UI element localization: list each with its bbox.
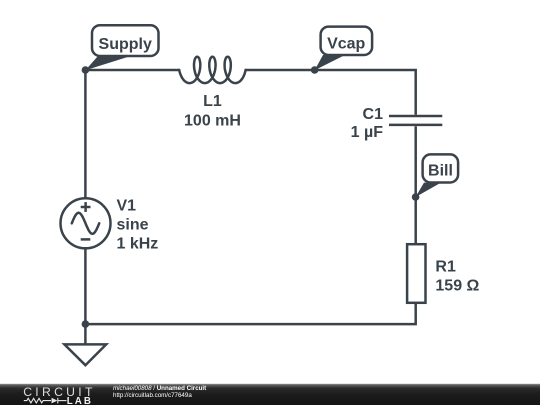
- voltage source V1: [61, 198, 159, 253]
- svg-text:sine: sine: [117, 217, 149, 234]
- svg-text:Vcap: Vcap: [327, 36, 365, 53]
- ground junction node dot: [82, 320, 90, 328]
- wire top-right (inductor to corner, down to capacitor): [246, 70, 416, 115]
- wire resistor bottom to corner and bottom wire to ground junction: [85, 303, 415, 324]
- footer bar: [0, 384, 540, 405]
- node label Vcap: [315, 27, 373, 71]
- wire capacitor to resistor (through Bill node): [414, 126, 417, 244]
- node label Bill: [416, 154, 459, 197]
- svg-text:C1: C1: [363, 106, 384, 123]
- wire top-left (Supply node to inductor): [85, 69, 179, 72]
- node Vcap dot: [311, 66, 319, 74]
- V1 sine wave: [72, 213, 99, 234]
- V1 minus sign: [81, 238, 91, 241]
- node Bill dot: [412, 193, 420, 201]
- svg-text:100 mH: 100 mH: [184, 113, 241, 130]
- V1 plus sign: [81, 206, 91, 209]
- ground: [64, 324, 106, 365]
- svg-text:L1: L1: [203, 93, 222, 110]
- wire V1 bottom to ground junction: [84, 248, 87, 324]
- node Supply dot: [82, 66, 90, 74]
- node label Supply: [85, 25, 158, 70]
- svg-text:V1: V1: [117, 198, 137, 215]
- svg-text:Bill: Bill: [428, 163, 453, 180]
- svg-text:1 kHz: 1 kHz: [117, 236, 159, 253]
- svg-text:1 µF: 1 µF: [351, 124, 384, 141]
- svg-text:R1: R1: [435, 258, 456, 275]
- svg-text:LAB: LAB: [67, 396, 93, 405]
- svg-text:159 Ω: 159 Ω: [435, 278, 479, 295]
- resistor R1: [407, 244, 479, 303]
- svg-text:http://circuitlab.com/c77649a: http://circuitlab.com/c77649a: [113, 392, 192, 399]
- capacitor C1: [351, 106, 443, 141]
- wire left vertical top (Supply node down to V1): [84, 70, 87, 198]
- logo resistor zigzag and diode: [24, 398, 67, 404]
- svg-text:Supply: Supply: [99, 36, 152, 53]
- inductor L1: [179, 57, 245, 130]
